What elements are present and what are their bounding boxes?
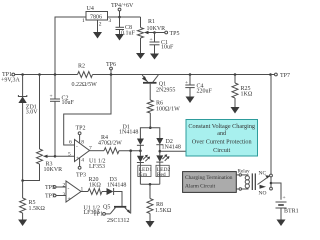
svg-text:1KΩ: 1KΩ — [241, 92, 253, 98]
capacitor C4 220uF — [185, 73, 213, 94]
capacitor C1 — [150, 33, 175, 51]
annotation box constant voltage charging — [186, 120, 258, 157]
svg-text:2SC1312: 2SC1312 — [107, 218, 129, 224]
svg-text:-: - — [76, 144, 78, 150]
relay coil — [236, 169, 255, 191]
svg-text:8: 8 — [81, 140, 84, 146]
svg-text:220uF: 220uF — [197, 89, 213, 95]
wire rail R2 to Q1 — [93, 74, 138, 76]
svg-text:1N4148: 1N4148 — [107, 183, 126, 189]
wire battery to ground — [280, 208, 282, 220]
regulator U4 7806 — [82, 6, 112, 28]
LED LED1 Grn — [137, 155, 152, 185]
resistor R6 100ohm/1W — [147, 100, 180, 113]
node junction Q5 riser — [129, 149, 132, 152]
resistor R25 1K — [232, 73, 253, 98]
node TP7 output — [269, 73, 290, 79]
wire R4 to LED chain — [119, 150, 140, 152]
svg-text:Alarm Circuit: Alarm Circuit — [185, 184, 216, 190]
svg-text:5: 5 — [68, 152, 71, 158]
svg-text:1KΩ: 1KΩ — [89, 183, 101, 189]
wire relay common to battery — [271, 183, 281, 200]
node junction R3 riser on rail — [38, 73, 41, 76]
svg-text:0.1uF: 0.1uF — [121, 31, 136, 37]
svg-text:and: and — [217, 130, 227, 137]
op-amp U1 1/2 LF353 (upper) — [68, 139, 106, 170]
svg-text:470Ω/2W: 470Ω/2W — [98, 141, 122, 147]
node TP1 / main +9V rail — [1, 72, 78, 84]
svg-text:LF353: LF353 — [89, 164, 105, 170]
resistor R8 1.5K — [147, 199, 172, 215]
svg-text:1N4148: 1N4148 — [162, 145, 181, 151]
node TP2 (pin 8) — [76, 126, 86, 143]
ground arrow at R25 — [231, 107, 240, 114]
svg-text:TP2: TP2 — [76, 126, 86, 132]
wire Q1 base to R6 — [149, 84, 151, 100]
svg-text:7806: 7806 — [90, 15, 102, 21]
wire TP7 node down to relay NC — [270, 75, 272, 188]
ground arrow at C4 — [186, 97, 195, 104]
wire TP4 node down to C8 — [119, 17, 121, 27]
node junction C2/7806 riser on rail — [54, 73, 57, 76]
wire R3 riser from rail — [39, 75, 41, 150]
svg-text:10uF: 10uF — [62, 100, 75, 106]
annotation box charging termination alarm — [183, 172, 237, 193]
svg-text:2: 2 — [99, 22, 102, 28]
ground arrow at R5 — [18, 220, 27, 227]
resistor R4 470ohm/2W — [98, 135, 122, 154]
wire rail Q1 to TP7 — [137, 74, 271, 76]
node junction D2/LED2 to box — [159, 150, 162, 153]
node junction D1 chain — [139, 149, 142, 152]
transistor Q1 2N2955 — [142, 75, 175, 94]
svg-text:3: 3 — [109, 18, 112, 24]
svg-text:BTR1: BTR1 — [284, 209, 299, 215]
relay contact NC — [258, 171, 273, 185]
svg-text:1: 1 — [82, 18, 85, 24]
op-amp U1 1/2 LF353 (lower) — [63, 181, 101, 216]
wire wiper node to op-amp pin 5 — [55, 155, 75, 157]
wire op-amp2 output — [81, 191, 88, 193]
resistor R20 1K — [88, 177, 102, 195]
wire top-left riser from rail to 7806 — [55, 17, 86, 75]
svg-text:NC: NC — [259, 171, 267, 177]
svg-text:Charging Termination: Charging Termination — [185, 175, 233, 181]
wire R5 to ground — [22, 213, 24, 220]
capacitor C2 — [50, 75, 75, 107]
ground arrow at 7806 pin2 — [93, 32, 102, 39]
ground arrow at battery — [277, 220, 286, 227]
svg-text:2: 2 — [63, 183, 66, 189]
potentiometer R1 10KVR — [138, 17, 166, 38]
svg-text:R2: R2 — [78, 64, 85, 70]
svg-text:Red: Red — [157, 172, 166, 178]
potentiometer R3 10KVR — [37, 149, 63, 173]
svg-text:0.22Ω/5W: 0.22Ω/5W — [72, 82, 98, 88]
svg-text:3.0V: 3.0V — [26, 110, 39, 116]
svg-text:4: 4 — [81, 158, 84, 164]
LED LED2 Red — [156, 154, 170, 184]
node junction chain bottom — [149, 183, 152, 186]
node junction R3/R5 — [21, 179, 24, 182]
wire 7806 output to R1 — [108, 16, 141, 18]
wire C1 to ground — [154, 45, 156, 54]
svg-text:+: + — [185, 80, 188, 86]
node junction ZD1 on rail — [21, 73, 24, 76]
svg-text:Grn: Grn — [139, 172, 148, 178]
resistor R2 0.22ohm/5W (in rail) — [72, 64, 98, 89]
svg-text:10uF: 10uF — [161, 45, 174, 51]
svg-text:2N2955: 2N2955 — [156, 88, 175, 94]
svg-text:10KVR: 10KVR — [44, 167, 63, 173]
svg-text:+: + — [76, 156, 79, 162]
transistor Q5 2SC1312 — [103, 205, 131, 225]
wire 7806 pin2 stub — [97, 20, 99, 32]
diode D2 1N4148 — [156, 138, 181, 155]
svg-text:1.5KΩ: 1.5KΩ — [29, 206, 46, 212]
ground arrow at R1 — [136, 53, 145, 59]
node wiper/C2 junction — [54, 155, 57, 158]
svg-text:Circuit: Circuit — [213, 147, 230, 154]
node TP5 input (pin 2) — [45, 185, 66, 191]
wire R3 bottom to ZD1 line — [23, 164, 40, 181]
svg-text:TP1: TP1 — [93, 211, 103, 217]
wire feedback TP6 to op-amp pin 6 — [64, 75, 111, 146]
diode D1 1N4148 — [119, 125, 144, 156]
svg-text:U4: U4 — [87, 6, 94, 12]
svg-text:TP4/+6V: TP4/+6V — [111, 3, 134, 9]
node TP3 (pin 4) — [76, 158, 86, 179]
svg-text:100Ω/1W: 100Ω/1W — [156, 107, 180, 113]
svg-text:Constant Voltage Charging: Constant Voltage Charging — [188, 123, 255, 130]
svg-text:TP7: TP7 — [280, 73, 290, 79]
svg-text:+: + — [68, 196, 71, 202]
wire C4 to ground — [189, 88, 191, 97]
wire chain bottom rail — [140, 183, 159, 185]
wire R6 to chain top — [149, 113, 151, 128]
node TP5 (wiper of R1) — [153, 31, 179, 37]
ground arrow at R8 — [146, 221, 155, 228]
svg-text:6: 6 — [69, 139, 72, 145]
capacitor C8 — [116, 25, 136, 37]
svg-text:1N4148: 1N4148 — [119, 130, 138, 136]
battery BTR1 — [276, 195, 299, 215]
ground arrow at C1 — [150, 54, 159, 60]
wire op-amp output pin 7 — [90, 150, 105, 152]
wire chain bottom to R8 — [149, 184, 151, 198]
diode D3 1N4148 — [102, 177, 126, 195]
wire R25 to ground — [234, 98, 236, 107]
svg-text:TP5: TP5 — [170, 31, 180, 37]
node relay common — [270, 182, 273, 185]
relay contact NO — [259, 185, 273, 197]
wire R8 to ground — [149, 214, 151, 222]
svg-text:-: - — [68, 186, 70, 192]
svg-text:+: + — [283, 195, 286, 201]
svg-text:Q1: Q1 — [159, 81, 166, 87]
svg-text:NO: NO — [259, 191, 267, 197]
wire R1 bottom to ground — [140, 38, 142, 53]
svg-text:Over Current Protection: Over Current Protection — [192, 138, 252, 145]
wire D2 node to cyan box — [160, 150, 187, 152]
wire chain top rail — [140, 128, 159, 139]
svg-text:+: + — [50, 94, 53, 100]
svg-text:10KVR: 10KVR — [147, 26, 166, 32]
wire C2 bottom to wiper node — [54, 101, 56, 156]
svg-text:TP3: TP3 — [76, 173, 86, 179]
wire D3 to Q5 base — [114, 192, 122, 207]
wire C8 to ground — [119, 30, 121, 35]
zener diode ZD1 3.0V — [18, 75, 38, 116]
resistor R5 1.5K — [20, 181, 46, 214]
svg-text:R1: R1 — [148, 19, 155, 25]
node TP7 input (pin 3) — [45, 194, 66, 200]
wire ZD1 anode down to node — [22, 103, 24, 181]
node junction chain top — [149, 126, 152, 129]
wire Q5 riser from R4 node — [130, 151, 132, 214]
node TP4/+6V — [111, 3, 134, 18]
svg-text:+: + — [150, 37, 153, 43]
node TP1 (Q5 collector) — [93, 211, 110, 217]
ground arrow at C8 — [115, 34, 124, 41]
node TP6 — [106, 62, 116, 76]
svg-text:+9V,3A: +9V,3A — [1, 78, 20, 84]
svg-text:Q5: Q5 — [103, 205, 110, 211]
svg-text:1.5KΩ: 1.5KΩ — [155, 208, 172, 214]
